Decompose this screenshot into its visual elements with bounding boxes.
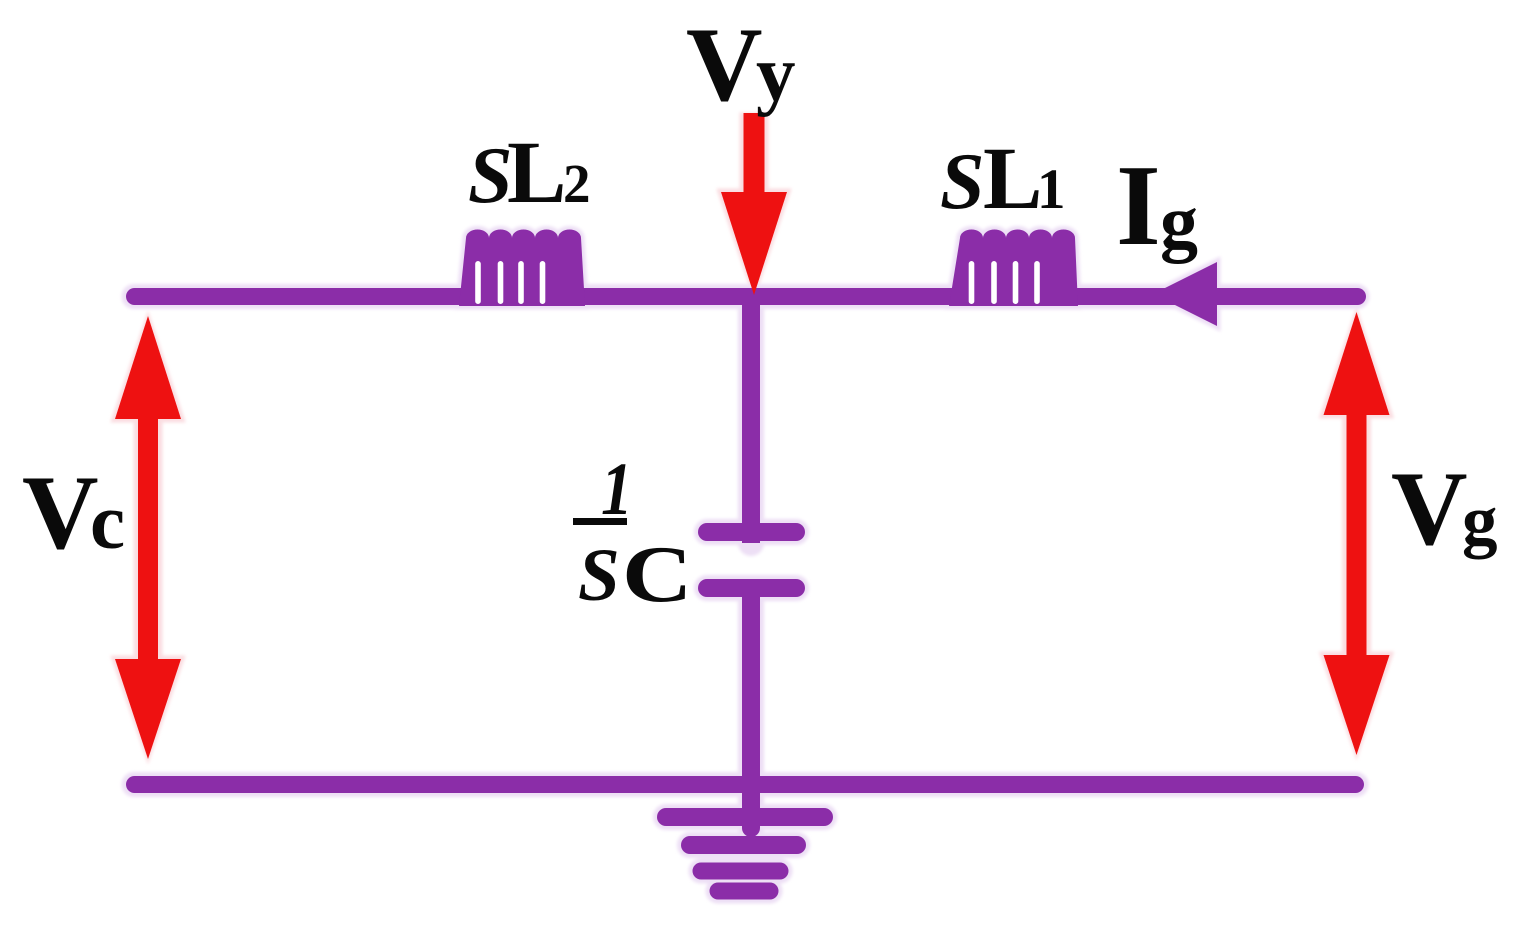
svg-text:1: 1 [1037, 158, 1066, 221]
halo layer (soft light fringes around red arrows) [111, 113, 1394, 763]
ground [666, 817, 824, 891]
capacitor C bottom plate [707, 579, 796, 597]
arrow Vg (red double-headed, right port) [1324, 312, 1390, 755]
svg-text:L: L [507, 124, 566, 222]
svg-text:V: V [22, 454, 99, 571]
svg-text:c: c [90, 479, 125, 566]
inductor L2 label SL2 [468, 124, 591, 222]
svg-text:I: I [1116, 142, 1161, 269]
capacitor C top plate [707, 523, 796, 541]
svg-text:g: g [1462, 482, 1498, 560]
inductor L1 body [949, 230, 1078, 307]
svg-text:S: S [468, 132, 513, 220]
label Vy [686, 6, 796, 123]
wire vertical lower (capacitor to ground) [742, 588, 760, 828]
wire bottom horizontal [135, 776, 1356, 793]
capacitor value label 1/SC [573, 447, 692, 619]
svg-text:S: S [940, 138, 985, 226]
inductor L2 body [459, 230, 585, 307]
wire vertical upper (node Vy to capacitor) [742, 298, 760, 543]
svg-text:C: C [622, 530, 692, 619]
arrow Vy (red, pointing down into node) [721, 113, 787, 295]
svg-text:1: 1 [601, 447, 632, 530]
arrow Vc (red double-headed, left port) [115, 316, 181, 759]
label Ig [1116, 142, 1198, 269]
inductor L1 label SL1 [940, 130, 1066, 228]
label Vc [22, 454, 125, 571]
current arrow Ig (purple arrowhead on top wire) [1153, 262, 1217, 326]
svg-text:y: y [756, 31, 796, 118]
wire top horizontal [135, 288, 1358, 305]
svg-text:S: S [578, 534, 620, 617]
halo layer (soft light fringes around purple conductors) [134, 230, 1357, 892]
svg-text:g: g [1160, 180, 1198, 264]
svg-text:L: L [983, 130, 1042, 228]
label Vg [1391, 450, 1498, 567]
svg-text:2: 2 [563, 153, 591, 214]
svg-text:V: V [686, 6, 763, 123]
svg-text:V: V [1391, 450, 1468, 567]
